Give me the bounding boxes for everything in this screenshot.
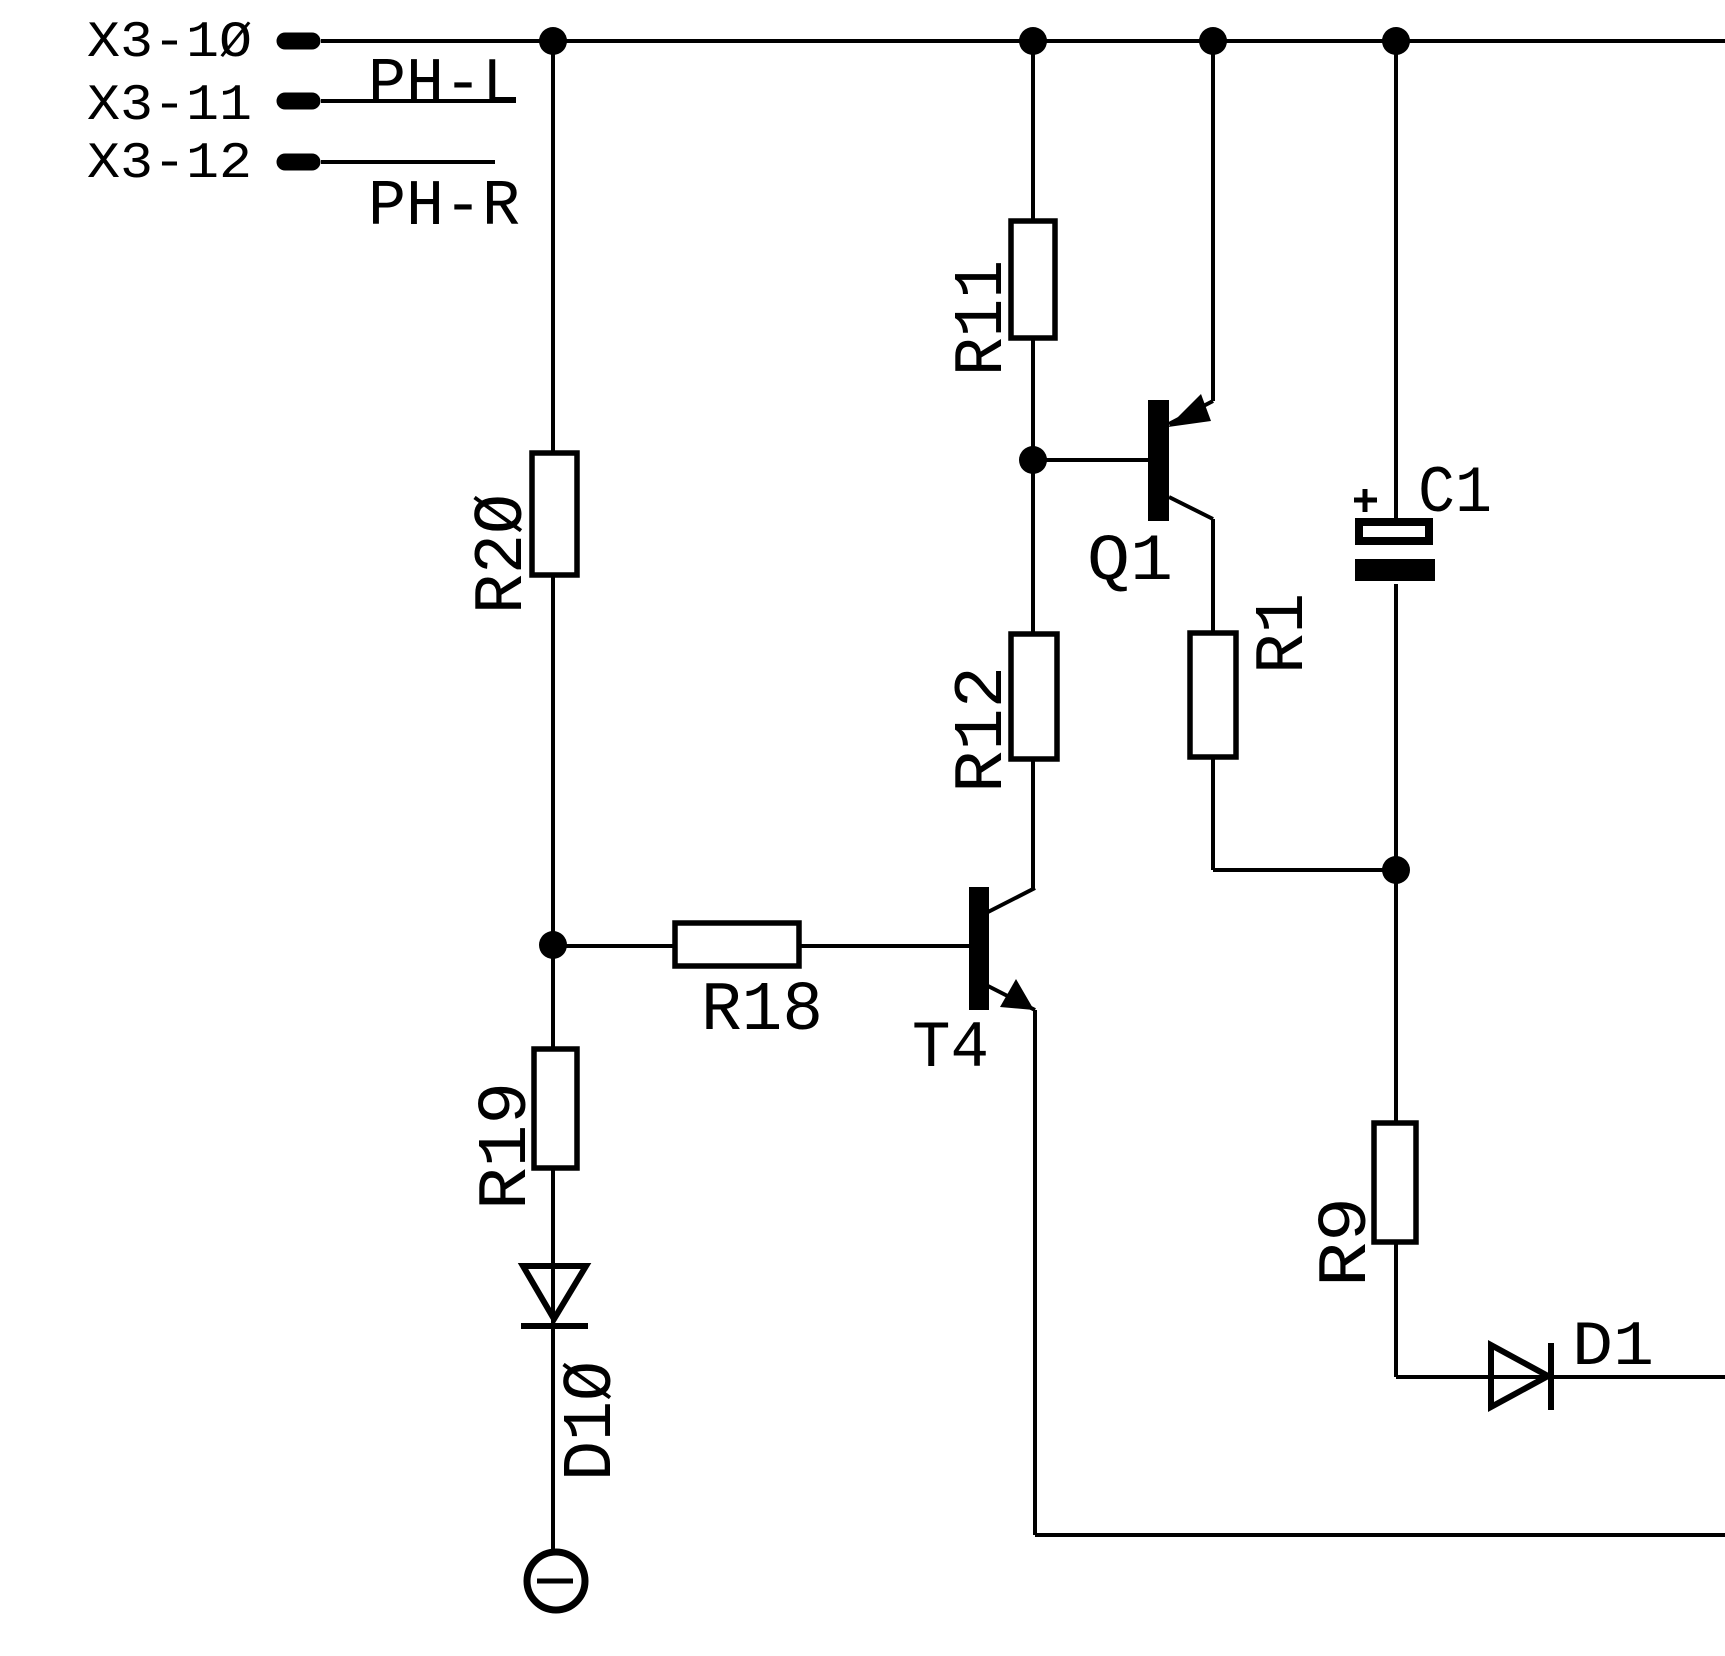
svg-text:T4: T4 (912, 1011, 989, 1086)
svg-text:X3-1Ø: X3-1Ø (87, 15, 252, 72)
svg-text:X3-12: X3-12 (87, 136, 252, 193)
svg-text:X3-11: X3-11 (87, 78, 252, 135)
svg-text:R11: R11 (944, 260, 1023, 376)
svg-text:R2Ø: R2Ø (464, 494, 543, 614)
svg-text:PH-L: PH-L (368, 48, 520, 122)
svg-text:C1: C1 (1418, 456, 1492, 531)
svg-text:Q1: Q1 (1087, 524, 1173, 599)
svg-text:D1: D1 (1572, 1312, 1654, 1383)
svg-text:D1Ø: D1Ø (553, 1361, 632, 1481)
svg-text:PH-R: PH-R (368, 170, 520, 244)
svg-text:R18: R18 (701, 972, 823, 1051)
svg-text:R1: R1 (1245, 593, 1324, 674)
svg-text:R9: R9 (1308, 1197, 1387, 1287)
svg-text:R19: R19 (468, 1082, 547, 1210)
svg-text:R12: R12 (944, 666, 1023, 793)
